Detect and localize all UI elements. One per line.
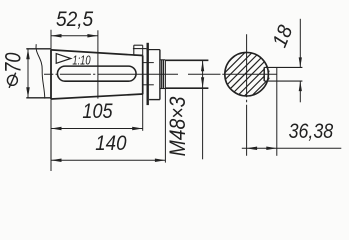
svg-text:M48×3: M48×3 <box>166 96 190 156</box>
svg-text:36,38: 36,38 <box>289 119 334 143</box>
svg-text:1:10: 1:10 <box>72 54 91 68</box>
svg-text:105: 105 <box>82 99 113 123</box>
svg-text:52,5: 52,5 <box>56 8 94 31</box>
svg-text:18: 18 <box>268 22 297 50</box>
svg-text:70: 70 <box>2 52 26 73</box>
svg-text:140: 140 <box>95 132 127 155</box>
